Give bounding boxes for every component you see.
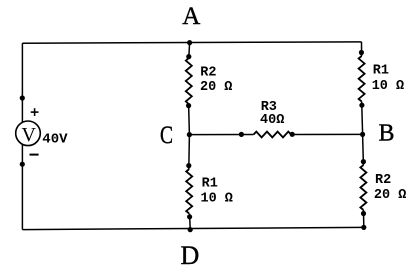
svg-text:C: C bbox=[160, 122, 173, 149]
svg-text:R2: R2 bbox=[375, 173, 391, 188]
svg-text:V: V bbox=[22, 124, 37, 146]
svg-text:R2: R2 bbox=[200, 66, 216, 81]
svg-text:D: D bbox=[181, 241, 200, 267]
svg-text:40Ω: 40Ω bbox=[260, 113, 284, 128]
svg-text:10 Ω: 10 Ω bbox=[201, 192, 233, 207]
svg-text:20 Ω: 20 Ω bbox=[200, 80, 232, 95]
svg-text:R1: R1 bbox=[202, 177, 218, 192]
svg-text:40V: 40V bbox=[42, 132, 68, 148]
svg-text:20 Ω: 20 Ω bbox=[374, 188, 406, 203]
svg-text:B: B bbox=[379, 120, 395, 146]
svg-text:R1: R1 bbox=[373, 63, 389, 78]
svg-text:A: A bbox=[182, 3, 200, 30]
svg-text:10 Ω: 10 Ω bbox=[372, 79, 404, 94]
